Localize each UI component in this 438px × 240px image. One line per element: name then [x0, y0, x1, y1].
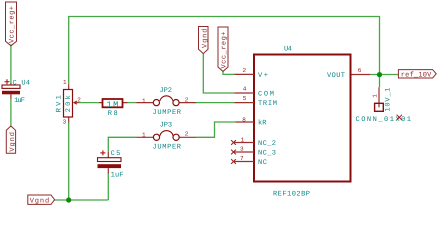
- wire Vcc_reg+ flag4 to V+: [223, 71, 235, 74]
- svg-text:3: 3: [240, 146, 244, 153]
- svg-text:1: 1: [371, 94, 378, 98]
- supply flag Vgnd (bottom left): [28, 195, 55, 205]
- capacitor C5: [98, 150, 124, 180]
- wire C_U4 bottom to Vgnd flag2: [10, 99, 12, 127]
- svg-text:C5: C5: [111, 150, 121, 158]
- svg-text:RV1: RV1: [55, 95, 63, 112]
- svg-text:4: 4: [243, 85, 247, 92]
- svg-text:1uF: 1uF: [14, 97, 25, 105]
- wire junction down to connector pin: [379, 75, 381, 88]
- svg-text:Vgnd: Vgnd: [30, 196, 50, 205]
- svg-text:JUMPER: JUMPER: [153, 109, 182, 117]
- junction VOUT node: [377, 72, 382, 77]
- wire JP3 pin2 to kR: [196, 122, 236, 137]
- U4 pin 8 kR: [236, 116, 268, 127]
- svg-text:Vcc_reg+: Vcc_reg+: [9, 6, 17, 43]
- wire RV1 top up, across top, down to VOUT junction: [69, 17, 380, 85]
- wire JP2 pin2 to TRIM: [196, 102, 235, 104]
- supply flag Vcc_reg+ (top left): [6, 2, 17, 46]
- svg-text:CONN_01X01: CONN_01X01: [356, 116, 412, 124]
- svg-text:TRIM: TRIM: [258, 100, 277, 108]
- svg-text:kR: kR: [258, 119, 267, 128]
- wire RV1 bottom to ground run: [68, 123, 70, 201]
- jumper JP3: [137, 121, 197, 151]
- svg-text:1M: 1M: [107, 100, 119, 110]
- svg-text:Vgnd: Vgnd: [200, 29, 209, 49]
- svg-text:1: 1: [142, 132, 146, 139]
- svg-text:JUMPER: JUMPER: [153, 143, 182, 151]
- U4 pin 6 VOUT: [327, 67, 370, 80]
- svg-text:VOUT: VOUT: [327, 72, 345, 80]
- svg-text:6: 6: [358, 67, 362, 74]
- wire C5 top to JP3 pin1: [108, 137, 136, 152]
- svg-text:1: 1: [241, 136, 245, 143]
- net label ref_10V (right): [398, 70, 436, 80]
- junction ground node: [66, 197, 71, 202]
- wire VOUT pin to ref_10V flag: [370, 74, 398, 76]
- wire Vgnd flag3 to COM: [203, 54, 234, 94]
- svg-text:10V_1: 10V_1: [384, 88, 392, 112]
- svg-text:NC: NC: [258, 159, 267, 167]
- connector 10V_1 CONN_01X01: [356, 87, 412, 124]
- svg-text:V+: V+: [258, 72, 268, 80]
- U4 pin 4 COM: [235, 85, 275, 98]
- svg-text:1: 1: [63, 79, 67, 86]
- svg-text:1uF: 1uF: [111, 172, 124, 180]
- supply flag Vgnd (middle top): [199, 27, 210, 54]
- U4 pin 1 NC_2 with X: [231, 136, 276, 148]
- capacitor C_U4: [2, 79, 30, 105]
- wire Vcc_reg+ flag1 to C_U4 top: [10, 45, 12, 84]
- svg-text:1: 1: [142, 97, 146, 104]
- svg-text:20k: 20k: [64, 95, 73, 112]
- svg-text:Vgnd: Vgnd: [8, 132, 17, 152]
- U4 pin 2 V+: [235, 67, 269, 80]
- wire up to C5 bottom: [107, 174, 109, 201]
- svg-text:REF102BP: REF102BP: [273, 190, 310, 198]
- svg-text:3: 3: [63, 118, 67, 125]
- svg-text:2: 2: [243, 67, 247, 74]
- wire Vgnd flag5 ground run to C5 column: [55, 199, 109, 201]
- potentiometer RV1: [55, 79, 81, 125]
- svg-text:NC_3: NC_3: [258, 150, 276, 158]
- svg-text:5: 5: [243, 95, 247, 102]
- svg-text:2: 2: [185, 131, 189, 138]
- jumper JP2: [136, 87, 196, 117]
- supply flag Vgnd (left, below C_U4): [6, 126, 17, 153]
- svg-text:R8: R8: [108, 110, 118, 118]
- svg-text:NC_2: NC_2: [258, 140, 276, 148]
- resistor R8: [99, 99, 128, 118]
- supply flag Vcc_reg+ (middle top): [218, 27, 229, 71]
- svg-text:2: 2: [77, 96, 81, 103]
- svg-text:8: 8: [242, 116, 246, 123]
- wire RV1 wiper to R8: [78, 102, 99, 104]
- svg-text:COM: COM: [258, 91, 274, 99]
- svg-text:C_U4: C_U4: [13, 79, 31, 87]
- U4 pin 5 TRIM: [235, 95, 278, 108]
- svg-text:JP3: JP3: [160, 121, 173, 129]
- svg-text:U4: U4: [284, 46, 292, 54]
- svg-text:JP2: JP2: [160, 87, 173, 95]
- U4 pin 3 NC_3 with X: [231, 146, 276, 158]
- wire R8 to JP2 pin1: [128, 102, 137, 104]
- op-amp U4 REF102BP body: [254, 46, 351, 199]
- svg-text:Vcc_reg+: Vcc_reg+: [221, 32, 229, 69]
- U4 pin 7 NC with X: [231, 155, 267, 167]
- svg-text:7: 7: [240, 155, 244, 162]
- svg-text:ref_10V: ref_10V: [401, 70, 432, 79]
- svg-text:2: 2: [185, 97, 189, 104]
